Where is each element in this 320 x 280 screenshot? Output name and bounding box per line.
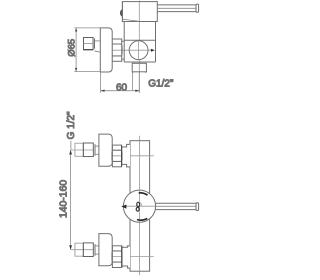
centerline vertical (front view) — [139, 136, 141, 275]
dimension 140-160 — [70, 150, 72, 250]
top inlet: dark pipe box — [83, 143, 93, 157]
bottom nut axis line — [112, 256, 153, 258]
cartridge housing (top) — [122, 2, 157, 22]
bottom inlet: dark pipe box — [83, 243, 93, 257]
lever (front view) — [155, 203, 196, 209]
centerline re-draw over column (front) — [139, 141, 141, 272]
housing left edge over knob — [121, 2, 123, 22]
centerline re-draw inside circle — [129, 41, 148, 60]
centerline horizontal (front view) — [122, 205, 157, 207]
leader G 1/2 (front view) — [70, 141, 72, 150]
centerline horizontal (top view) — [107, 49, 154, 51]
svg-text:G1/2": G1/2" — [148, 78, 174, 89]
svg-text:Ø65: Ø65 — [65, 39, 76, 57]
logo circles (front view) — [137, 202, 140, 207]
bottom boss staircase (front view) — [122, 246, 130, 268]
svg-text:60: 60 — [116, 82, 128, 93]
union nut (top view) — [112, 39, 123, 61]
top inlet: second edge — [94, 144, 96, 156]
mixer circle (front view) — [123, 190, 155, 222]
body column (front view) — [130, 141, 150, 272]
bottom flange (front view) — [99, 234, 112, 266]
wall flange (top view) — [100, 28, 112, 72]
bottom inlet axis line — [71, 249, 93, 251]
lever end cap (top view) — [196, 4, 199, 12]
centerline arrow left (front view) — [121, 205, 126, 209]
top union nut (front view) — [112, 145, 122, 167]
logo tick — [141, 202, 142, 205]
leader G1/2 (top view) — [131, 72, 133, 91]
bottom inlet: second edge — [94, 244, 96, 256]
top inlet: taper — [95, 146, 99, 154]
neck between nut and body (top view) — [122, 41, 125, 59]
bottom union nut (front view) — [112, 246, 122, 268]
top flange (front view) — [99, 134, 112, 166]
dimension 60 — [101, 72, 140, 93]
dimension Ø65 — [74, 28, 100, 72]
outlet thread stubs (top view) — [132, 72, 134, 73]
lever (top view) — [157, 5, 196, 12]
ball circle (top view) — [129, 41, 148, 60]
bottom inlet: light pipe box — [75, 243, 83, 256]
dark knob on housing left — [120, 10, 122, 17]
lever end cap (front view) — [196, 203, 199, 211]
outlet fitting (top view) — [132, 63, 146, 72]
centerline arrow right (top view) — [151, 49, 155, 52]
eccentric taper (top view) — [95, 41, 101, 52]
top nut axis line — [112, 155, 153, 157]
bold arc bottom (front view) — [137, 218, 147, 220]
inlet pipe tip (top view) — [84, 38, 95, 50]
bottom inlet: taper — [95, 246, 99, 254]
top boss staircase (front view) — [122, 144, 130, 167]
svg-text:140-160: 140-160 — [59, 180, 70, 218]
centerlines inside circle (front) — [123, 190, 155, 222]
housing chamfer line — [123, 19, 140, 21]
top inlet axis line — [71, 149, 93, 151]
bold arc top (front view) — [139, 193, 148, 195]
svg-text:G 1/2": G 1/2" — [66, 111, 77, 139]
body column (top view) — [124, 22, 155, 63]
centerline vertical (top view) — [138, 1, 140, 93]
top inlet: light pipe box — [75, 143, 83, 156]
